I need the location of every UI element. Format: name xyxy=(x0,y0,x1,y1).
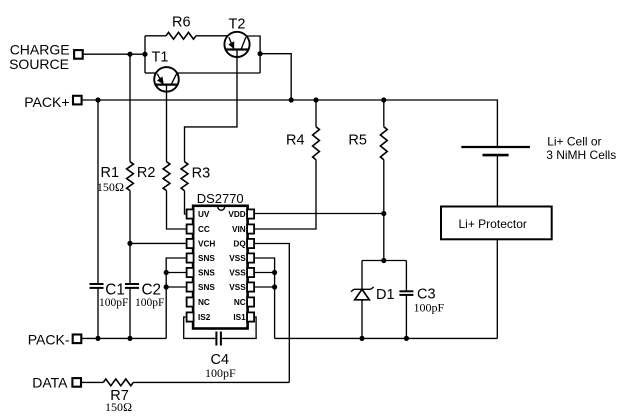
wire IS2 loop xyxy=(184,317,216,338)
pin VSS3 xyxy=(229,282,254,292)
svg-text:VCH: VCH xyxy=(198,240,215,249)
resistor R3 xyxy=(181,162,210,191)
svg-text:DQ: DQ xyxy=(233,240,246,249)
node VSS 2 xyxy=(272,270,277,275)
Li+ Protector box xyxy=(441,207,552,240)
battery B1 Li+ cell xyxy=(461,134,616,162)
svg-text:T2: T2 xyxy=(229,17,246,33)
svg-text:VSS: VSS xyxy=(229,254,246,263)
wire SNS bus xyxy=(166,258,187,338)
svg-text:R6: R6 xyxy=(172,15,191,31)
svg-text:100pF: 100pF xyxy=(205,366,236,380)
wire VSS bus xyxy=(254,258,275,338)
svg-text:C1: C1 xyxy=(105,281,125,298)
svg-text:UV: UV xyxy=(198,210,210,219)
resistor R7 xyxy=(103,379,133,414)
svg-text:R3: R3 xyxy=(192,166,211,182)
node T2 collector branch xyxy=(258,51,263,56)
node DQ top junction xyxy=(381,258,386,263)
pin SNS2 xyxy=(187,268,216,278)
wire rail to R6 xyxy=(145,35,166,37)
svg-text:SNS: SNS xyxy=(198,254,215,263)
wire SNS stub 3 xyxy=(166,286,187,288)
wire SNS stub 2 xyxy=(166,272,187,274)
node C1 top xyxy=(95,97,100,102)
transistor T1 xyxy=(152,50,179,92)
wire PACK- right segment xyxy=(275,337,498,339)
svg-text:R5: R5 xyxy=(348,133,367,149)
node R1 top junction xyxy=(127,52,132,57)
wire D1 C3 top xyxy=(362,260,406,262)
pin IS1 xyxy=(233,312,254,322)
svg-text:VSS: VSS xyxy=(229,269,246,278)
pin VSS1 xyxy=(229,253,254,263)
svg-text:T1: T1 xyxy=(152,50,169,66)
svg-text:Li+ Cell or: Li+ Cell or xyxy=(547,134,601,148)
wire R4 to VIN xyxy=(254,160,316,229)
node D1 bottom xyxy=(359,336,364,341)
wire T1 base down to R2 xyxy=(166,85,168,162)
pin VDD xyxy=(228,209,254,219)
pin NC right xyxy=(234,297,254,307)
wire R2 to CC xyxy=(167,191,188,229)
wire R3 to UV xyxy=(185,191,188,214)
wire VCH xyxy=(130,242,187,244)
node SNS 2 xyxy=(164,270,169,275)
svg-text:DS2770: DS2770 xyxy=(197,191,244,206)
svg-text:150Ω: 150Ω xyxy=(105,400,132,414)
svg-text:C2: C2 xyxy=(142,281,162,298)
IC U1 DS2770 body xyxy=(193,191,248,329)
node VCH junction xyxy=(127,241,132,246)
node SNS 3 xyxy=(164,284,169,289)
node VSS 3 xyxy=(272,284,277,289)
svg-text:100pF: 100pF xyxy=(99,297,128,309)
svg-text:SNS: SNS xyxy=(198,269,215,278)
wire left rail vertical xyxy=(144,36,146,73)
svg-text:100pF: 100pF xyxy=(135,297,164,309)
pin NC left xyxy=(187,297,210,307)
diode D1 zener xyxy=(351,261,395,339)
wire T1 emitter xyxy=(145,72,156,74)
node R5 top xyxy=(381,97,386,102)
pin VCH xyxy=(187,239,216,249)
svg-text:VIN: VIN xyxy=(232,225,246,234)
svg-text:IS1: IS1 xyxy=(233,313,246,322)
wire IS1 loop xyxy=(221,317,256,338)
wire T2 base jog to R3 xyxy=(185,50,238,162)
wire VDD xyxy=(254,213,384,215)
svg-text:R4: R4 xyxy=(286,133,305,149)
resistor R5 xyxy=(348,100,387,160)
wire R5 to DQ node xyxy=(383,160,385,261)
svg-text:NC: NC xyxy=(198,298,210,307)
capacitor C2 xyxy=(125,281,164,338)
resistor R2 xyxy=(137,162,170,191)
wire CHARGE SOURCE to node xyxy=(83,53,145,55)
node VDD R5 junction xyxy=(381,211,386,216)
pin SNS3 xyxy=(187,282,216,292)
wire R7 to DQ xyxy=(133,381,289,383)
resistor R1 xyxy=(97,54,133,194)
svg-text:100pF: 100pF xyxy=(414,301,445,315)
wire T1 collector to T2 branch xyxy=(177,72,260,74)
svg-text:VSS: VSS xyxy=(229,283,246,292)
svg-text:150Ω: 150Ω xyxy=(97,180,124,194)
svg-text:Li+ Protector: Li+ Protector xyxy=(459,217,527,231)
wire T2 collector xyxy=(246,36,260,73)
svg-text:PACK-: PACK- xyxy=(28,331,70,347)
wire PACK- left segment xyxy=(82,337,166,339)
svg-text:R1: R1 xyxy=(101,165,120,181)
wire DQ xyxy=(254,244,289,383)
node rail junction xyxy=(142,52,147,57)
capacitor C4 xyxy=(205,332,236,381)
svg-text:R2: R2 xyxy=(137,165,156,181)
wire VSS stub 2 xyxy=(254,272,275,274)
pin VSS2 xyxy=(229,268,254,278)
capacitor C1 xyxy=(90,100,129,338)
terminal PACK- xyxy=(28,331,82,347)
node T2 branch on PACK+ xyxy=(289,97,294,102)
terminal DATA xyxy=(32,374,81,390)
terminal PACK+ xyxy=(24,94,81,110)
node C1 bottom xyxy=(95,336,100,341)
transistor T2 xyxy=(224,17,249,58)
resistor R4 xyxy=(286,100,319,160)
pin DQ xyxy=(233,239,254,249)
terminal CHARGE SOURCE xyxy=(9,42,83,73)
node C3 bottom xyxy=(404,336,409,341)
svg-text:SOURCE: SOURCE xyxy=(9,56,69,72)
node R4 top xyxy=(313,97,318,102)
pin IS2 xyxy=(187,312,211,322)
svg-text:NC: NC xyxy=(234,298,246,307)
node C2 bottom xyxy=(127,336,132,341)
wire VSS stub 3 xyxy=(254,286,275,288)
svg-text:CC: CC xyxy=(198,225,210,234)
wire DATA to R7 xyxy=(82,381,104,383)
pin VIN xyxy=(232,224,254,234)
svg-text:SNS: SNS xyxy=(198,283,215,292)
wire protector to PACK- xyxy=(496,239,498,338)
svg-text:3 NiMH Cells: 3 NiMH Cells xyxy=(546,148,616,162)
svg-text:VDD: VDD xyxy=(228,210,245,219)
wire branch to PACK+ xyxy=(260,54,291,100)
capacitor C3 xyxy=(399,261,444,339)
svg-text:CHARGE: CHARGE xyxy=(10,42,70,58)
wire R1 to C2/VCH xyxy=(129,191,131,285)
pin UV xyxy=(187,209,210,219)
wire battery to protector xyxy=(496,155,498,206)
pin SNS1 xyxy=(187,253,216,263)
wire PACK+ rail xyxy=(82,100,497,147)
svg-text:D1: D1 xyxy=(376,287,395,303)
svg-text:PACK+: PACK+ xyxy=(24,94,69,110)
pin CC xyxy=(187,224,210,234)
svg-text:DATA: DATA xyxy=(32,374,68,390)
svg-text:IS2: IS2 xyxy=(198,313,211,322)
wire R6 to T2 emitter xyxy=(196,35,228,37)
resistor R6 xyxy=(166,15,196,40)
